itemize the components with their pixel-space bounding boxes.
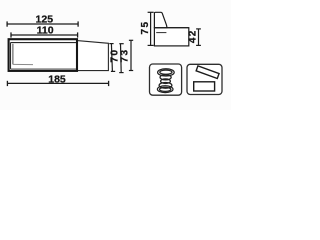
svg-text:42: 42 [188,29,199,43]
dimension line third (unlabeled, right) [129,40,133,70]
dimension 73 line [119,44,124,73]
storage box body [194,82,215,91]
dimension 70 line [109,44,115,72]
sofa seat base [154,28,188,46]
storage box lid [196,66,219,79]
svg-text:73: 73 [119,49,130,63]
mattress fold horizontal fading line [13,63,33,65]
dimension 125 line [7,21,78,26]
svg-text:75: 75 [140,21,151,35]
storage badge frame [187,64,222,94]
sofa backrest [154,12,167,27]
sofa seat top line [154,27,188,29]
mattress inner left line [10,43,12,69]
spring coil [157,69,174,93]
mattress outer thick rectangle [9,39,77,71]
mattress inner bottom line [11,68,77,70]
spring badge frame [150,64,182,95]
dimension 42 line [196,29,201,46]
bed pull-out section (thin rectangle, slightly slanted top) [77,41,108,71]
dimension 110 line [11,32,78,37]
dimension 75 line [148,12,154,45]
mattress fold L-line [12,44,14,65]
svg-text:110: 110 [37,25,54,37]
mattress inner top line [11,42,77,44]
svg-text:185: 185 [48,73,66,85]
sofa seat cushion line [156,32,166,34]
dimension 185 line [7,81,108,86]
